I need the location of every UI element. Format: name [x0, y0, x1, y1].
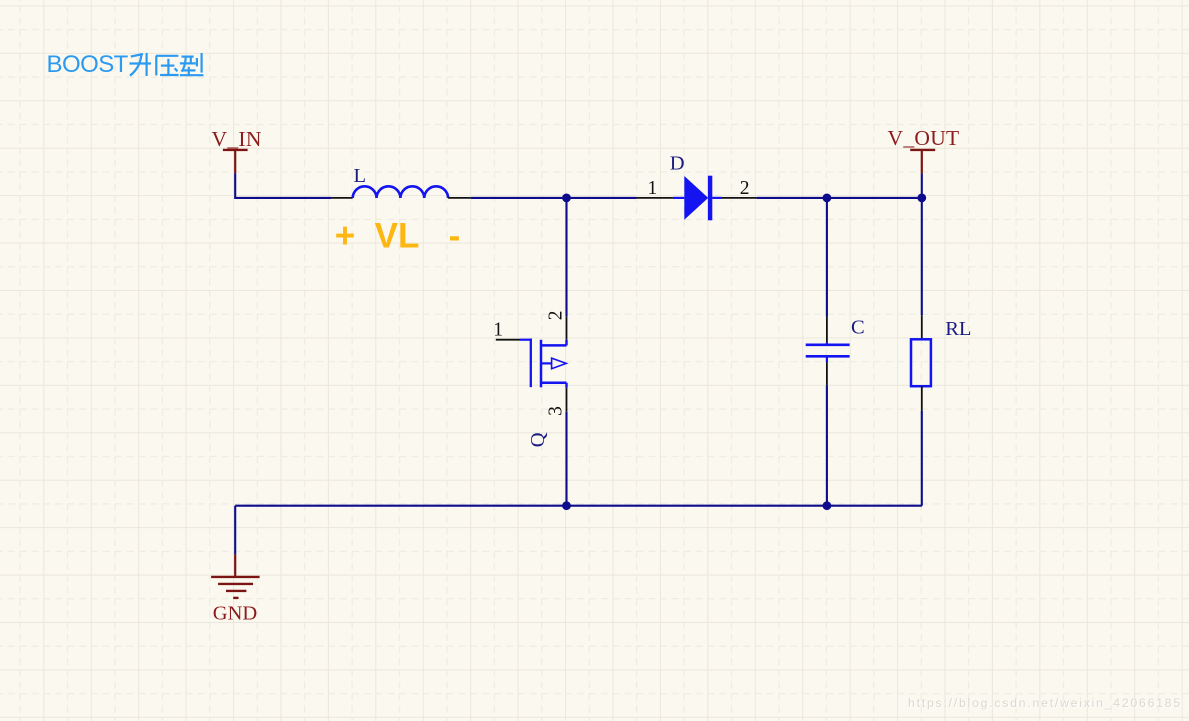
wire MOSFET source to rail [565, 412, 567, 506]
svg-text:L: L [354, 165, 367, 187]
diode D pin 1 [636, 197, 673, 199]
ground stem [234, 554, 236, 576]
transistor Q body [520, 339, 567, 388]
junction node at drain top [562, 194, 571, 203]
wire V_IN to inductor [235, 173, 331, 198]
capacitor C pin 2 [826, 362, 828, 385]
resistor RL pin 2 [921, 386, 923, 411]
svg-text:D: D [670, 152, 685, 174]
diode D lead left [673, 197, 684, 199]
diode D triangle [684, 176, 708, 220]
svg-text:GND: GND [213, 602, 257, 624]
title char 压 [156, 56, 179, 76]
wire diode to V_OUT node [757, 197, 922, 199]
wire MOSFET drain column [565, 198, 567, 317]
junction node at cap bottom [823, 501, 832, 510]
inductor L pin 1 [331, 197, 352, 199]
title char 型 [180, 53, 204, 75]
wire rail to GND [234, 506, 236, 555]
capacitor C pin 1 [826, 317, 828, 343]
MOSFET pin 2 stub [566, 317, 568, 340]
wire V_OUT down to node [921, 173, 923, 198]
diode D pin 2 [722, 197, 757, 199]
svg-text:2: 2 [545, 311, 566, 321]
svg-text:3: 3 [545, 406, 566, 416]
svg-text:1: 1 [648, 178, 658, 199]
resistor RL pin 1 [921, 315, 923, 339]
power symbol V_IN [212, 127, 262, 173]
wire inductor to diode [471, 197, 637, 199]
ground bars [211, 577, 260, 598]
diode D cathode bar [708, 176, 712, 221]
wire capacitor to rail [826, 385, 828, 505]
svg-text:C: C [851, 317, 865, 339]
junction node at source bottom [562, 501, 571, 510]
svg-text:V_OUT: V_OUT [888, 126, 960, 150]
junction node at V_OUT [917, 194, 926, 203]
svg-text:+ VL -: + VL - [335, 216, 460, 255]
capacitor C [806, 342, 850, 362]
svg-text:V_IN: V_IN [212, 127, 262, 151]
wire RL to rail corner [921, 411, 923, 506]
inductor L pin 2 [448, 197, 471, 199]
junction node at cap top [823, 194, 832, 203]
wire RL column top [921, 198, 923, 315]
resistor RL [911, 339, 931, 386]
svg-text:2: 2 [740, 178, 750, 199]
svg-text:Q: Q [527, 432, 549, 447]
svg-text:https://blog.csdn.net/weixin_4: https://blog.csdn.net/weixin_42066185 [908, 696, 1182, 710]
svg-text:RL: RL [945, 318, 971, 340]
power symbol V_OUT [888, 126, 960, 173]
wire capacitor column top [826, 198, 828, 317]
diode D lead right [712, 197, 721, 199]
svg-text:BOOST: BOOST [47, 51, 129, 78]
MOSFET pin 1 lead [496, 339, 520, 341]
svg-text:1: 1 [493, 320, 503, 341]
title char 升 [130, 53, 152, 76]
inductor L [353, 186, 448, 198]
MOSFET pin 3 stub [566, 388, 568, 412]
bottom rail wire [235, 505, 922, 507]
